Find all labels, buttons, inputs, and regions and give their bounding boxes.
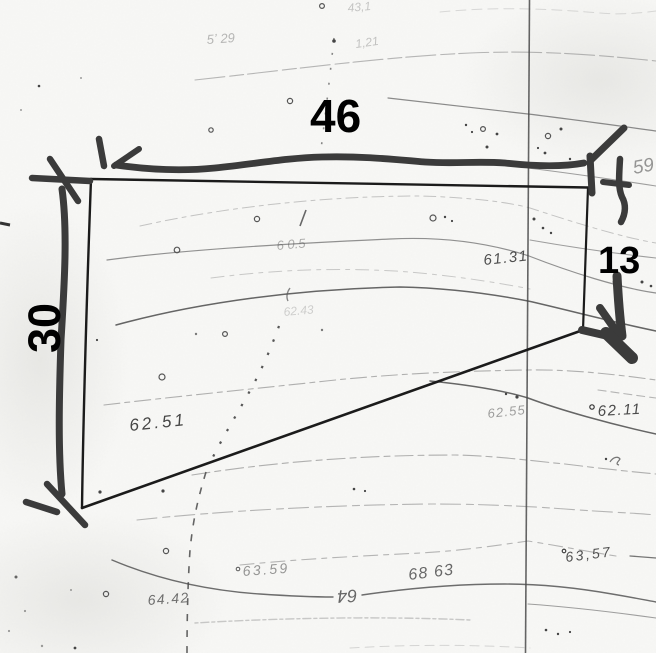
contour B64 right <box>362 584 656 602</box>
contour L9b dashes top right <box>598 390 656 398</box>
squiggle mark 2 <box>610 457 620 465</box>
vertical grid line <box>526 0 530 653</box>
svg-text:5ʼ 29: 5ʼ 29 <box>206 30 235 47</box>
contour L12 dash after 63,57 <box>630 556 656 558</box>
cross vertical right <box>619 159 625 222</box>
top edge <box>91 179 588 188</box>
arrow shaft right <box>617 276 622 336</box>
svg-text:6 0.5: 6 0.5 <box>276 235 307 253</box>
arrow wing right <box>600 308 619 335</box>
top measure squiggle <box>116 157 584 170</box>
arrow wing top <box>114 149 139 166</box>
arrow horizontal right <box>582 330 608 336</box>
contour L1 faint top <box>195 52 656 80</box>
contour very bottom <box>350 645 530 648</box>
left measure line <box>59 189 65 494</box>
dashed curve lower <box>187 472 206 653</box>
svg-text:64: 64 <box>337 585 358 606</box>
slash mark <box>300 210 306 226</box>
tick above top-left corner <box>99 139 104 166</box>
svg-text:46: 46 <box>310 90 361 142</box>
contour L2 <box>388 98 656 131</box>
arrow blob <box>606 333 632 358</box>
svg-text:62.43: 62.43 <box>283 302 314 319</box>
dotted curve upper <box>209 326 279 465</box>
diagonal top-right <box>591 128 624 160</box>
contour bottom right <box>528 604 656 618</box>
contour L8 the 62 line <box>104 370 656 405</box>
contour L7 dark arc <box>116 287 656 331</box>
svg-text:63.59: 63.59 <box>242 560 290 579</box>
paren mark <box>287 288 290 301</box>
handwritten map labels <box>128 0 656 608</box>
tick diagonal top-left <box>50 159 78 201</box>
svg-text:64.42: 64.42 <box>147 589 190 608</box>
contour L3 under 59 <box>528 168 656 186</box>
tick horizontal top-left <box>32 178 90 181</box>
left edge <box>82 179 91 508</box>
contour L6 faint dashed <box>211 269 530 289</box>
paper blotches <box>0 510 230 653</box>
tick diagonal bottom-left <box>47 484 85 525</box>
left edge dash <box>0 223 10 225</box>
cross horizontal right <box>603 182 629 185</box>
svg-text:13: 13 <box>598 240 640 282</box>
scattered map dots and circles <box>103 4 550 597</box>
contour top edge faint <box>440 9 656 14</box>
contour L10 <box>192 455 656 475</box>
contour B64 left <box>112 560 333 597</box>
svg-text:30: 30 <box>19 303 70 353</box>
contour L9 dark right <box>430 381 656 434</box>
contour L11 <box>137 504 656 520</box>
contour rB right <box>530 240 656 258</box>
plot boundary quadrilateral <box>82 179 588 508</box>
bottom edge <box>82 330 583 508</box>
thick marker annotations <box>26 128 632 525</box>
tick vertical top-right <box>590 156 592 193</box>
svg-text:43,1: 43,1 <box>347 0 371 15</box>
tick horizontal bottom-left <box>26 502 57 512</box>
contour L5 <box>107 238 656 293</box>
svg-text:59: 59 <box>631 154 656 178</box>
svg-text:62.11: 62.11 <box>597 401 642 420</box>
contour L4 faint dashed inside quad <box>140 196 656 243</box>
right edge <box>583 188 588 331</box>
contour bottom smudge <box>195 618 470 623</box>
contour L12 the 63 line <box>240 541 616 565</box>
dotted line above quad <box>318 38 334 172</box>
